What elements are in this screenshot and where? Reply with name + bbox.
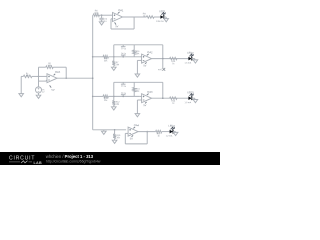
svg-text:5V: 5V	[143, 63, 146, 67]
svg-text:1.85 mA: 1.85 mA	[156, 20, 164, 23]
svg-text:100k: 100k	[47, 65, 51, 67]
svg-text:CIRCUIT: CIRCUIT	[9, 156, 35, 162]
svg-text:OA3: OA3	[147, 90, 153, 94]
svg-text:OA5: OA5	[55, 70, 61, 74]
svg-text:OA2: OA2	[147, 50, 153, 54]
svg-text:OA1: OA1	[118, 8, 124, 12]
svg-text:1.5 mA: 1.5 mA	[185, 61, 192, 64]
svg-text:C3 1u: C3 1u	[121, 86, 126, 88]
svg-text:LED2: LED2	[187, 52, 194, 55]
svg-text:http://circuitlab.com/c/66gf7q: http://circuitlab.com/c/66gf7qpxb4w	[46, 160, 101, 164]
svg-text:LED4: LED4	[168, 125, 175, 128]
svg-text:C3 1u: C3 1u	[121, 48, 126, 50]
svg-text:OA4: OA4	[134, 123, 140, 127]
svg-text:1.5 mA: 1.5 mA	[185, 101, 192, 104]
svg-text:5V: 5V	[130, 136, 133, 140]
svg-text:5V: 5V	[51, 88, 54, 92]
svg-text:1.2 mA: 1.2 mA	[166, 134, 173, 137]
svg-text:LED1: LED1	[159, 10, 166, 13]
svg-text:10k: 10k	[26, 75, 29, 77]
svg-text:LAB: LAB	[34, 161, 43, 165]
svg-text:5V: 5V	[115, 24, 118, 28]
svg-text:whchien / Project 1 - 313: whchien / Project 1 - 313	[46, 154, 94, 159]
svg-text:5V: 5V	[143, 103, 146, 107]
svg-text:LED3: LED3	[187, 91, 194, 94]
